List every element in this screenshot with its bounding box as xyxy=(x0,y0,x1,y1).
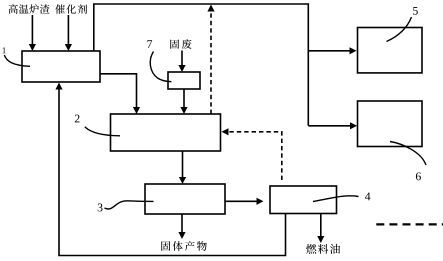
arrowhead dashed into box2 xyxy=(222,128,229,135)
label 3 xyxy=(98,204,103,212)
box 6 xyxy=(358,101,423,147)
arrowhead into box5 xyxy=(350,47,357,54)
label 燃料油 xyxy=(306,244,316,254)
arrowhead recycle into box1 xyxy=(55,83,62,90)
wire box3 product xyxy=(181,214,183,234)
wire recycle loop xyxy=(59,88,286,256)
label 4 xyxy=(365,192,370,200)
leader 1 xyxy=(4,55,30,66)
box 3 xyxy=(145,184,225,214)
arrowhead box1-box2 xyxy=(133,107,140,114)
leader 4 xyxy=(313,196,359,202)
wire dashed legend segment xyxy=(376,223,443,225)
wire box4 fuel xyxy=(320,214,322,238)
label 7 xyxy=(147,40,152,48)
label 6 xyxy=(416,172,421,180)
label 1 xyxy=(3,47,6,53)
arrowhead box7-box2 xyxy=(180,107,187,114)
box 1 reactor xyxy=(22,51,100,82)
box 4 xyxy=(270,186,337,214)
wire solid-waste to box7 xyxy=(181,51,183,67)
wire box3 to box4 xyxy=(225,200,258,202)
wire dashed return into box2 xyxy=(229,132,282,180)
arrowhead into box7 xyxy=(178,65,185,72)
leader 7 xyxy=(150,52,171,82)
wire box1 top header to right xyxy=(94,4,308,126)
label 固体产物 xyxy=(161,241,170,251)
arrowhead solid product xyxy=(178,232,185,239)
box 7 feeder xyxy=(168,72,200,89)
arrowhead into box4 xyxy=(257,198,264,205)
wire box7 to box2 xyxy=(183,89,185,108)
wire dashed gas recycle xyxy=(210,11,212,114)
wire slag feed xyxy=(31,15,33,46)
label 高温炉渣 xyxy=(9,4,18,14)
leader 2 xyxy=(85,127,120,136)
leader 5 xyxy=(387,17,412,42)
wire catalyst feed xyxy=(67,15,69,46)
leader 6 xyxy=(390,142,426,166)
box 2 xyxy=(111,114,221,151)
label 2 xyxy=(75,115,80,123)
arrowhead slag xyxy=(29,44,36,51)
label 催化剂 xyxy=(55,4,65,13)
box 5 xyxy=(358,28,423,73)
label 5 xyxy=(413,7,418,15)
wire arrow to box6 xyxy=(308,125,350,127)
arrowhead box2-box3 xyxy=(179,177,186,184)
wire box1 to box2 xyxy=(100,74,137,108)
leader 3 xyxy=(105,201,154,209)
wire box2 to box3 xyxy=(182,151,184,178)
arrowhead dashed up xyxy=(207,5,214,12)
label 固废 xyxy=(170,39,179,48)
arrowhead into box6 xyxy=(350,122,357,129)
wire arrow to box5 xyxy=(308,50,350,52)
arrowhead catalyst xyxy=(65,44,72,51)
arrowhead fuel oil xyxy=(317,236,324,243)
